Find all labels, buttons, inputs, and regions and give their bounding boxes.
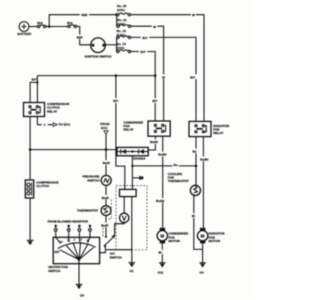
wire condenser motor to ground	[161, 243, 163, 262]
svg-text:RELAY: RELAY	[213, 131, 224, 135]
node main junction after 80A fuse	[48, 25, 51, 28]
wire Bu from diode tap to cooling fan thermostat	[132, 165, 196, 167]
node bus right end	[154, 74, 157, 77]
wire pressure to thermostat	[105, 185, 107, 205]
svg-text:CLUTCH: CLUTCH	[36, 184, 49, 188]
ground G5 heater switch	[76, 284, 85, 297]
svg-text:THERMOSTAT: THERMOSTAT	[168, 179, 189, 183]
svg-text:SWITCH: SWITCH	[87, 178, 100, 182]
ground G101 compressor clutch	[27, 240, 34, 245]
svg-text:Bu: Bu	[174, 163, 178, 167]
wire fuse 50A to ignition switch (W/R)	[77, 26, 91, 44]
svg-text:W/R: W/R	[77, 35, 84, 39]
label B/Y on vertical x196	[189, 74, 197, 79]
condenser fan relay RY2	[123, 120, 170, 136]
wire lamp to A/C switch	[115, 223, 125, 237]
wire thermostat to A/C switch	[105, 216, 107, 237]
wire battery to fuse 80A	[29, 26, 37, 28]
svg-text:DIODES: DIODES	[133, 157, 145, 161]
svg-text:G11: G11	[158, 270, 164, 274]
wire radiator relay to radiator fan motor Bu/Bl	[202, 137, 204, 228]
diodes D1 D2	[117, 147, 148, 160]
wire fuse 14 to B/Y bus	[131, 52, 156, 76]
wire ignition switch to fuse column	[105, 44, 116, 46]
ground G11 condenser fan motor	[158, 263, 166, 275]
svg-text:IGNITION SWITCH: IGNITION SWITCH	[85, 55, 113, 59]
wire feed to fuse 21	[116, 15, 118, 27]
ignition switch SW1	[85, 38, 113, 59]
label W on vertical	[161, 74, 166, 79]
svg-text:G4: G4	[199, 270, 203, 274]
node relay branch	[36, 81, 38, 83]
svg-text:ECU: ECU	[101, 126, 108, 130]
wire B/Y bus	[37, 75, 155, 77]
wire junction to fuse 50A	[49, 26, 67, 28]
svg-text:OFF: OFF	[54, 250, 60, 254]
svg-text:MOTOR: MOTOR	[168, 239, 180, 243]
wire from-ecu to pressure switch	[105, 135, 107, 176]
wire ground line panel	[131, 197, 133, 263]
svg-text:G5: G5	[80, 293, 84, 297]
wire resistor to lamp	[123, 197, 125, 214]
svg-text:M: M	[160, 234, 164, 239]
svg-text:Bu/R: Bu/R	[102, 196, 110, 200]
label Bl thermostat	[190, 213, 196, 218]
label W/R	[75, 35, 84, 40]
thermostat SW4	[77, 206, 111, 216]
node from-ecu tie	[105, 148, 108, 151]
svg-text:B/Y: B/Y	[152, 99, 158, 103]
ground G1 A/C switch	[129, 263, 136, 274]
blower terminal 4	[88, 224, 91, 237]
svg-text:(10A): (10A)	[117, 8, 125, 12]
compressor clutch coil	[25, 180, 59, 198]
terminal stub illumination	[132, 176, 143, 180]
ground G4 radiator fan motor	[199, 263, 206, 275]
svg-text:RELAY: RELAY	[123, 128, 134, 132]
svg-text:Bu/R: Bu/R	[103, 161, 111, 165]
wire fuse column 13-14	[116, 37, 118, 51]
svg-text:SWITCH: SWITCH	[48, 269, 61, 273]
svg-text:Bu: Bu	[192, 149, 196, 153]
svg-text:W: W	[192, 13, 195, 17]
fuse No.14 10A	[117, 42, 131, 53]
label W/B	[80, 12, 89, 17]
wire switch to ground line	[106, 249, 132, 251]
wire bus down to compressor clutch relay	[30, 76, 37, 103]
label B/Y condenser	[151, 98, 160, 103]
svg-text:Bu/Bl: Bu/Bl	[158, 153, 166, 157]
svg-text:THERMOSTAT: THERMOSTAT	[77, 208, 98, 212]
svg-text:M: M	[201, 234, 205, 239]
label Bu	[173, 162, 179, 167]
blower terminal 2	[67, 224, 70, 237]
wire condenser relay coil feed	[154, 76, 156, 122]
svg-text:50A: 50A	[67, 21, 73, 25]
svg-text:Bl: Bl	[192, 214, 195, 218]
wire condenser relay to condenser fan motor Bu/Bl	[162, 136, 164, 228]
label Bu/Bl radiator	[199, 157, 209, 162]
wire relay to compressor clutch	[29, 117, 31, 181]
dashed A/C switch assembly box	[116, 186, 147, 250]
fuse No.20 10A	[116, 4, 130, 16]
node diode tie on clutch wire	[29, 148, 32, 151]
svg-text:TO ECU: TO ECU	[59, 123, 71, 127]
node diode tap	[131, 165, 133, 167]
svg-text:W: W	[162, 75, 165, 79]
blower terminal 3	[78, 224, 81, 237]
svg-text:FROM BLOWER RESISTOR: FROM BLOWER RESISTOR	[48, 220, 89, 224]
wire diode tap down to resistor	[131, 156, 133, 190]
condenser fan motor M1	[157, 228, 189, 244]
wire fuse 21 to condenser fan relay (W)	[131, 26, 164, 121]
fuse 80A	[37, 21, 46, 28]
label Bu/W	[149, 139, 159, 144]
radiator fan relay RY3	[189, 121, 230, 136]
wire B/Y column to A/C panel	[116, 76, 125, 190]
label B/Y column	[111, 98, 120, 103]
battery	[17, 22, 32, 37]
label Bu/R mid	[101, 195, 110, 200]
A/C switch SW5	[103, 228, 123, 259]
wire radiator motor to ground	[202, 243, 204, 262]
wire relay coil Y to ECU	[37, 117, 52, 125]
wire junction up to top W/B feed	[49, 15, 116, 27]
svg-text:HI: HI	[87, 240, 90, 242]
svg-text:Bu/Bl: Bu/Bl	[156, 199, 164, 203]
wire condenser relay coil low Bu/W to diodes	[148, 136, 155, 150]
label W top	[191, 12, 196, 17]
cooling fan thermostat SW2	[168, 172, 201, 196]
svg-text:BATTERY: BATTERY	[17, 32, 32, 36]
svg-text:(10A): (10A)	[117, 46, 125, 50]
compressor clutch relay RY1	[24, 102, 71, 117]
svg-text:MOTOR: MOTOR	[209, 239, 221, 243]
svg-text:G1: G1	[130, 269, 134, 273]
svg-text:W/B: W/B	[81, 13, 88, 17]
radiator fan motor M2	[197, 228, 225, 244]
svg-text:W: W	[153, 25, 156, 29]
pressure switch SW3	[82, 175, 111, 186]
svg-text:Bu/Bl: Bu/Bl	[200, 157, 208, 161]
fuse No.21 10A	[117, 18, 131, 27]
node bus to pressure column	[115, 74, 118, 77]
illumination resistor	[120, 189, 137, 196]
svg-text:B/Y: B/Y	[32, 78, 38, 82]
node fuse block feed	[115, 14, 117, 16]
label Bl condenser	[157, 250, 163, 255]
fuse 50A	[67, 21, 77, 28]
label Bu/Bl upper	[157, 152, 167, 157]
label B/Y fuse14	[139, 49, 147, 54]
blower terminal 1	[54, 224, 57, 237]
wire heater switch to A/C switch	[100, 246, 106, 252]
wire fuse 80A to junction	[46, 26, 49, 28]
arrow TO ECU	[53, 123, 71, 127]
label Bu/R top	[102, 160, 111, 165]
A/C indicator lamp L1	[120, 213, 129, 222]
linkage dash	[107, 200, 111, 220]
wire diode row to clutch wire	[30, 149, 117, 151]
svg-text:80A: 80A	[37, 21, 43, 25]
svg-text:Bl: Bl	[158, 250, 161, 254]
wire radiator relay coil low Bu to thermostat	[195, 137, 197, 186]
label W mid	[152, 24, 157, 29]
svg-text:Bu/W: Bu/W	[150, 140, 158, 144]
wire fuse 20 to radiator fan relay (W)	[131, 15, 204, 122]
wire clutch to ground	[29, 198, 31, 240]
FROM ECU arrow	[100, 122, 110, 134]
label B/Y fuse13	[141, 35, 149, 40]
heater fan switch SW6	[48, 237, 99, 273]
wire thermostat to ground loop	[194, 195, 203, 249]
label Bu/R low	[100, 223, 109, 228]
wire fuse 13 to radiator fan relay coil (B/Y)	[131, 37, 196, 121]
label Bu radiator	[191, 149, 198, 154]
node thermostat tie	[195, 165, 198, 168]
svg-text:SWITCH: SWITCH	[110, 255, 123, 259]
svg-text:RELAY: RELAY	[47, 109, 58, 113]
fuse No.13 7.5A	[117, 29, 131, 39]
svg-text:Bu/R: Bu/R	[101, 223, 109, 227]
label Bu/Bl lower	[155, 198, 165, 203]
wire heater switch to ground	[78, 261, 80, 284]
